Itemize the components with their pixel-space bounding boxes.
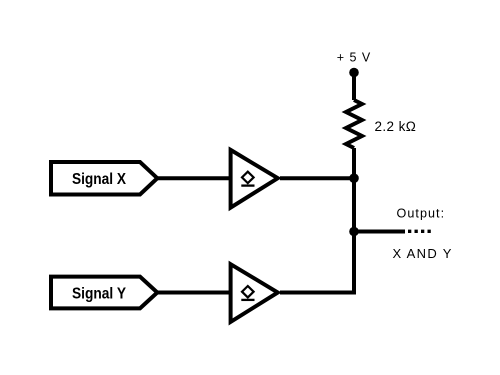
resistor 2.2 kOhm bbox=[346, 100, 362, 148]
buffer Y triangle bbox=[231, 264, 278, 322]
wire: buffer Y output right then up to output node bbox=[280, 232, 354, 293]
svg-text:Output:: Output: bbox=[397, 207, 446, 221]
Signal X flag bbox=[51, 162, 157, 195]
svg-text:Signal X: Signal X bbox=[72, 171, 126, 188]
wire: +5V dot to resistor top bbox=[352, 73, 356, 101]
svg-text:Signal Y: Signal Y bbox=[72, 285, 126, 302]
open-collector diamond Y bbox=[242, 286, 254, 297]
wire: buffer X output to bus bbox=[280, 176, 354, 180]
wire: resistor bottom to output node (vertical bus) bbox=[352, 148, 356, 232]
svg-text:+ 5 V: + 5 V bbox=[337, 51, 372, 65]
open-collector underline Y bbox=[241, 299, 254, 301]
output wire dashed continuation bbox=[408, 230, 431, 233]
output wire solid segment bbox=[354, 230, 405, 234]
+5V terminal dot bbox=[349, 68, 359, 78]
wire: Signal Y flag to buffer input bbox=[157, 291, 230, 295]
junction dot node X/bus bbox=[349, 173, 359, 183]
svg-text:2.2 kΩ: 2.2 kΩ bbox=[375, 119, 417, 134]
svg-text:X AND Y: X AND Y bbox=[393, 246, 453, 261]
wire: Signal X flag to buffer input bbox=[157, 176, 230, 180]
open-collector underline X bbox=[241, 184, 254, 186]
open-collector diamond X bbox=[242, 172, 254, 183]
buffer X triangle bbox=[231, 150, 278, 208]
Signal Y flag bbox=[51, 277, 157, 309]
junction dot output node bbox=[349, 227, 359, 237]
